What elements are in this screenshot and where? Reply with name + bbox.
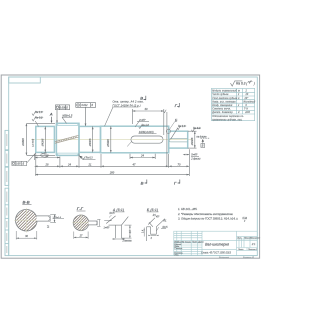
svg-text:M36×1.5: M36×1.5 [63, 114, 73, 117]
svg-text:2 места: 2 места [122, 241, 133, 243]
svg-text:280: 280 [109, 171, 115, 175]
svg-text:Ra 3.2: Ra 3.2 [35, 116, 43, 119]
svg-text:Листов 1: Листов 1 [247, 249, 257, 251]
svg-text:28: 28 [45, 162, 49, 166]
svg-text:Т.контр.: Т.контр. [174, 248, 183, 250]
svg-text:20°: 20° [244, 98, 249, 100]
svg-text:m: m [238, 91, 240, 93]
svg-text:5×45°: 5×45° [191, 154, 197, 157]
svg-text:Дата: Дата [197, 242, 204, 244]
svg-text:∅30k6: ∅30k6 [190, 137, 194, 145]
svg-text:Угол наклона зубьев: Угол наклона зубьев [212, 98, 238, 100]
svg-text:24: 24 [140, 154, 144, 158]
svg-text:45°: 45° [156, 215, 160, 218]
svg-text:R0.5: R0.5 [163, 227, 169, 229]
svg-text:Коэф. смещения: Коэф. смещения [212, 104, 233, 107]
svg-text:7-H: 7-H [244, 109, 248, 111]
svg-text:Ra 1.6: Ra 1.6 [142, 124, 150, 127]
svg-text:27: 27 [79, 234, 83, 237]
svg-text:Отв. центр. A4 2 отв.: Отв. центр. A4 2 отв. [113, 100, 144, 103]
svg-text:Степень точн.: Степень точн. [212, 109, 231, 111]
svg-text:В-В: В-В [23, 200, 30, 205]
svg-text:21: 21 [88, 162, 92, 166]
svg-text:Ra 6.3: Ra 6.3 [86, 158, 93, 160]
svg-text:Подп.: Подп. [192, 241, 198, 244]
svg-text:2. *Размеры обеспечивать инстр: 2. *Размеры обеспечивать инструментом. [177, 212, 233, 216]
svg-text:ГОСТ 14034-74 (2 р.): ГОСТ 14034-74 (2 р.) [113, 104, 141, 107]
svg-text:1. HB 241...285.: 1. HB 241...285. [178, 207, 198, 211]
svg-text:Формат A2: Формат A2 [243, 256, 255, 259]
svg-text:Ra 6.3 (: Ra 6.3 ( [236, 81, 248, 85]
svg-text:Модуль нормальный: Модуль нормальный [212, 90, 237, 93]
svg-text:Б: Б [175, 117, 178, 122]
svg-text:В: В [140, 96, 143, 101]
svg-text:Ra1.6: Ra1.6 [55, 217, 62, 219]
svg-text:2×45°: 2×45° [138, 119, 146, 122]
svg-text:∅40: ∅40 [245, 111, 251, 114]
svg-text:Копировал: Копировал [219, 257, 230, 259]
svg-text:Исходный: Исходный [244, 100, 256, 103]
svg-text:): ) [253, 81, 255, 85]
svg-text:0.05: 0.05 [16, 164, 21, 166]
svg-text:Утв.: Утв. [174, 254, 179, 256]
svg-text:2:1: 2:1 [251, 242, 256, 246]
svg-text:Масштаб: Масштаб [250, 238, 261, 240]
svg-text:Сталь 45 ГОСТ 1050-2013: Сталь 45 ГОСТ 1050-2013 [201, 252, 232, 255]
svg-text:∅50k6: ∅50k6 [106, 139, 110, 147]
svg-text:(+0.018): (+0.018) [33, 139, 35, 147]
svg-text:Лит.: Лит. [236, 238, 242, 240]
svg-text:Ra 1.6: Ra 1.6 [35, 111, 43, 114]
svg-text:на длине: на длине [197, 135, 208, 138]
svg-text:Б (5:1): Б (5:1) [147, 208, 159, 212]
svg-text:14N9(-0.043): 14N9(-0.043) [139, 131, 154, 134]
svg-text:R0.5: R0.5 [110, 213, 116, 215]
svg-text:пряженного зубчат. кол.: пряженного зубчат. кол. [212, 119, 242, 121]
svg-text:2 фаски: 2 фаски [190, 157, 201, 160]
svg-text:∅42k6: ∅42k6 [41, 138, 45, 146]
svg-text:∅36k6: ∅36k6 [21, 138, 25, 146]
svg-text:Лист: Лист [237, 249, 244, 251]
svg-text:В: В [141, 180, 144, 185]
svg-text:А: А [49, 112, 53, 117]
svg-text:Вал-шестерня: Вал-шестерня [205, 243, 229, 247]
svg-text:Б: Б [202, 144, 204, 148]
svg-text:∅48k6: ∅48k6 [88, 138, 92, 146]
svg-text:Делит. диаметр: Делит. диаметр [211, 111, 233, 114]
svg-text:Г-Г: Г-Г [77, 206, 84, 211]
svg-text:20: 20 [245, 94, 249, 96]
svg-text:Напр. исх. контура: Напр. исх. контура [212, 101, 236, 103]
svg-text:24: 24 [67, 162, 71, 166]
svg-text:№ докум.: № докум. [182, 241, 192, 244]
svg-text:А (5:1): А (5:1) [112, 208, 125, 212]
svg-text:0.012: 0.012 [82, 104, 89, 107]
svg-text:Обозначение чертежа со-: Обозначение чертежа со- [212, 116, 244, 118]
svg-text:3. Общие допуски по ГОСТ 30893: 3. Общие допуски по ГОСТ 30893.1: H14, h… [178, 217, 238, 221]
svg-text:Число зубьев: Число зубьев [212, 94, 229, 96]
svg-text:Ra 1.6: Ra 1.6 [178, 125, 186, 128]
svg-text:1×45°: 1×45° [104, 227, 110, 230]
svg-text:Ra 6.3: Ra 6.3 [193, 127, 201, 130]
svg-text:1×45°: 1×45° [41, 153, 47, 156]
